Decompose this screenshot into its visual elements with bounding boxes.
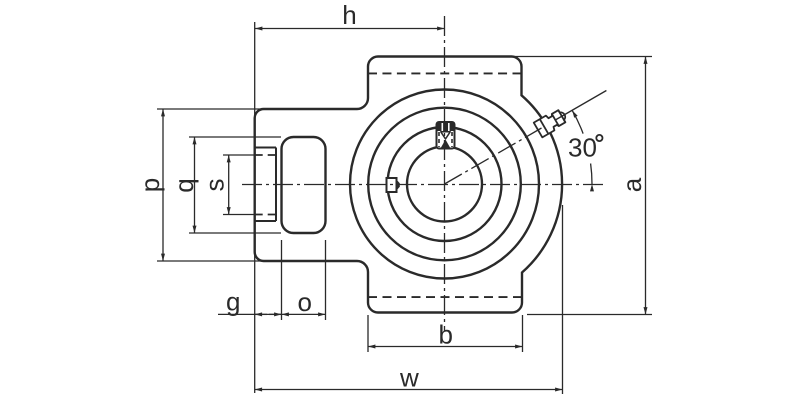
set screw knurled head band <box>438 123 454 131</box>
set screw socket upper cone <box>441 132 450 139</box>
vertical centerline <box>444 16 446 331</box>
lubrication plug body <box>387 178 397 192</box>
dimension w right extension line <box>562 205 564 394</box>
dimension s upper extension line <box>223 154 254 156</box>
bottom slot hidden line <box>368 296 522 298</box>
take-up housing frame outline <box>255 57 562 313</box>
threaded hole upper outline <box>255 147 276 149</box>
cartridge outer circle <box>350 90 539 279</box>
svg-text:p: p <box>135 178 165 192</box>
dimension p upper extension line <box>157 108 264 110</box>
bearing inner ring circle <box>388 127 502 241</box>
dimension g left arrow <box>255 313 267 315</box>
30 degree reference line <box>555 91 606 121</box>
dimension s lower extension line <box>223 214 254 216</box>
30 degree arc upper segment <box>572 110 583 133</box>
dimension b left extension line <box>367 315 369 352</box>
30 degree arc lower segment <box>591 164 592 185</box>
top slot hidden line <box>368 72 522 74</box>
thread upper hidden line <box>255 154 276 156</box>
dimension h extension line <box>254 22 256 120</box>
dimension g right arrow <box>269 313 282 315</box>
svg-text:g: g <box>226 287 240 317</box>
lubrication plug tip <box>397 180 400 191</box>
dimension w left extension line <box>254 250 256 393</box>
grease fitting <box>534 107 569 137</box>
dimension a top extension line <box>512 56 652 58</box>
dimension s line <box>228 155 230 215</box>
dimension o right extension line <box>325 240 327 320</box>
svg-text:q: q <box>169 178 199 192</box>
dimension g line <box>218 313 282 315</box>
threaded hole lower outline <box>255 220 276 222</box>
dimension p lower extension line <box>157 260 264 262</box>
dimension w line <box>255 389 563 391</box>
dimension q upper extension line <box>189 136 281 138</box>
thread lower hidden line <box>255 214 276 216</box>
dimension a bottom extension line <box>527 314 652 316</box>
svg-text:h: h <box>342 0 356 30</box>
svg-text:30: 30 <box>568 133 597 163</box>
dimension q line <box>194 137 196 233</box>
svg-text:o: o <box>298 287 312 317</box>
degree symbol <box>596 135 602 141</box>
dimension o line <box>282 313 326 315</box>
dimension b line <box>368 346 523 348</box>
dimension h line <box>255 28 445 30</box>
shaft bore circle <box>407 147 482 222</box>
bearing outer ring circle <box>368 108 521 261</box>
dimension o left extension line <box>281 240 283 320</box>
dimension a line <box>645 57 647 315</box>
set screw tip cone <box>441 140 450 148</box>
svg-text:a: a <box>617 177 647 192</box>
set screw body <box>437 122 455 149</box>
svg-text:s: s <box>200 179 230 192</box>
grease fitting axis centerline <box>445 128 542 184</box>
dimension b right extension line <box>522 315 524 352</box>
svg-text:w: w <box>399 363 419 393</box>
dimension q lower extension line <box>189 232 281 234</box>
adjusting screw boss <box>282 137 326 233</box>
horizontal centerline <box>242 184 607 186</box>
set screw thread hidden line right <box>451 132 453 147</box>
dimension p line <box>162 109 164 261</box>
threaded hole end face <box>275 148 277 222</box>
set screw thread hidden line left <box>438 132 440 147</box>
svg-text:b: b <box>439 320 453 350</box>
